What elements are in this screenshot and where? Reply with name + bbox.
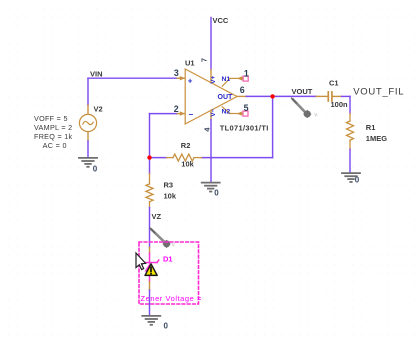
svg-text:AC = 0: AC = 0 — [43, 141, 67, 150]
C1 left lead — [316, 95, 327, 97]
wire down to R1 — [349, 96, 351, 113]
svg-text:100n: 100n — [331, 100, 349, 109]
wire pin2 vertical — [149, 114, 151, 158]
wire VIN vertical to V2 — [87, 78, 89, 105]
V2 top lead — [87, 105, 89, 114]
pin 2 arrow — [180, 111, 185, 115]
svg-text:VOUT: VOUT — [292, 87, 313, 96]
pin N2 stub — [222, 107, 230, 114]
junction dot OUT node — [270, 94, 274, 98]
svg-text:v: v — [172, 243, 175, 249]
op-amp U1 triangle — [185, 69, 237, 124]
resistor R3 — [146, 173, 153, 207]
svg-text:C1: C1 — [329, 78, 339, 87]
pin 2 lead — [177, 113, 184, 115]
svg-text:VOFF = 5: VOFF = 5 — [34, 114, 68, 123]
svg-text:0: 0 — [164, 322, 169, 331]
svg-text:1: 1 — [244, 69, 249, 79]
wire VIN horizontal — [88, 77, 177, 79]
svg-text:R2: R2 — [181, 141, 191, 150]
svg-text:N2: N2 — [222, 108, 231, 115]
pin 5 square — [243, 111, 248, 116]
wire R3 to diode — [149, 208, 151, 248]
svg-text:0: 0 — [93, 164, 98, 173]
pin N2 arrow — [237, 111, 243, 115]
pin 7 lead — [210, 70, 212, 84]
svg-text:0: 0 — [355, 176, 360, 185]
wire OUT to junction — [246, 95, 316, 97]
svg-text:3: 3 — [174, 68, 179, 78]
svg-text:N1: N1 — [222, 76, 231, 83]
svg-text:R1: R1 — [366, 123, 376, 132]
probe VOUT head — [304, 110, 311, 117]
wire V2 to ground — [87, 141, 89, 157]
diode D1 top lead — [149, 247, 151, 253]
svg-text:U1: U1 — [185, 58, 195, 67]
wire junction to R2 — [150, 157, 167, 159]
svg-text:6: 6 — [240, 85, 245, 95]
capacitor C1 — [327, 92, 329, 101]
diode D1 selected body — [142, 253, 159, 281]
diode D1 bottom lead — [149, 282, 151, 291]
svg-text:VAMPL = 2: VAMPL = 2 — [34, 123, 72, 132]
ground V2 — [79, 158, 97, 167]
svg-text:10k: 10k — [181, 160, 194, 169]
zener box dashed — [139, 242, 199, 304]
svg-text:0: 0 — [214, 189, 219, 198]
svg-text:5: 5 — [244, 103, 249, 113]
junction dot R2 node — [147, 155, 151, 159]
pin 6 lead — [237, 95, 246, 97]
wire junction to R3 — [149, 158, 151, 174]
wire feedback horizontal — [202, 157, 273, 159]
wire VCC vertical — [210, 18, 212, 70]
V2 bottom lead — [87, 132, 89, 141]
svg-text:V+: V+ — [210, 75, 217, 83]
pin N1 stub — [222, 78, 230, 86]
svg-text:V−: V− — [210, 108, 217, 116]
svg-text:10k: 10k — [164, 192, 177, 201]
svg-text:2: 2 — [174, 104, 179, 114]
V2 sine wave — [83, 121, 93, 124]
svg-text:−: − — [189, 110, 194, 119]
probe VOUT needle — [293, 100, 306, 113]
svg-text:V2: V2 — [94, 105, 103, 114]
svg-text:VZ: VZ — [152, 212, 162, 221]
svg-text:OUT: OUT — [218, 94, 234, 101]
svg-text:VCC: VCC — [213, 16, 229, 25]
wire pin4 to ground — [210, 120, 212, 183]
pin 4 lead — [210, 110, 212, 119]
probe VZ needle — [152, 230, 166, 243]
svg-text:7: 7 — [201, 58, 208, 62]
svg-text:1MEG: 1MEG — [366, 134, 387, 143]
svg-text:FREQ = 1k: FREQ = 1k — [34, 132, 73, 141]
mouse cursor — [136, 253, 146, 270]
C1 right lead — [333, 95, 342, 97]
pin N1 arrow — [237, 76, 243, 80]
ground VZ — [142, 316, 160, 325]
svg-text:TL071/301/TI: TL071/301/TI — [220, 123, 269, 132]
resistor R1 — [347, 113, 354, 149]
warning triangle D1 — [145, 264, 157, 276]
svg-text:VIN: VIN — [90, 70, 103, 79]
pin 3 arrow — [180, 76, 185, 80]
wire pin2 horizontal — [150, 113, 178, 115]
svg-text:VOUT_FIL: VOUT_FIL — [353, 86, 404, 97]
wire C1 to corner — [342, 95, 350, 97]
ground pin4 — [202, 183, 220, 192]
probe VZ head — [163, 240, 170, 247]
svg-text:v: v — [314, 113, 317, 119]
svg-text:R3: R3 — [164, 181, 174, 190]
wire D1 to ground — [149, 290, 151, 316]
V2 source circle — [79, 114, 96, 131]
svg-text:+: + — [188, 76, 193, 85]
resistor R2 — [167, 154, 202, 161]
pin 1 square — [243, 76, 248, 81]
wire feedback vertical — [272, 96, 274, 157]
pin 3 lead — [177, 77, 184, 79]
ground R1 — [342, 173, 360, 182]
wire R1 to ground — [349, 149, 351, 172]
svg-text:D1: D1 — [163, 254, 173, 263]
